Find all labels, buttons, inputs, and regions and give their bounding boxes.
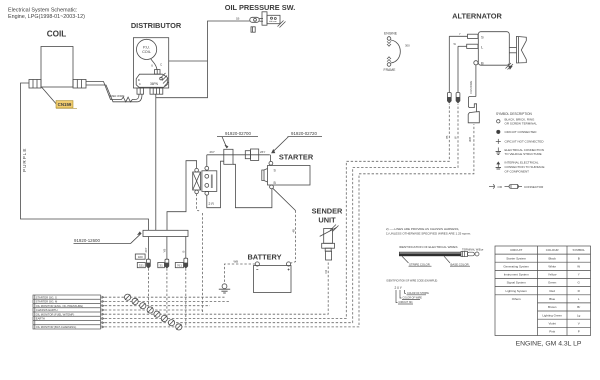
- connector label 91920-02700: [225, 131, 251, 136]
- wire starter B to battery plus: [273, 188, 296, 210]
- module terminal circle: [160, 77, 163, 80]
- svg-text:FUS WIRE: FUS WIRE: [469, 81, 473, 94]
- svg-text:P.U.: P.U.: [143, 45, 150, 49]
- svg-text:31: 31: [159, 264, 163, 268]
- svg-text:BASE COLOR: BASE COLOR: [451, 262, 469, 266]
- module labels: [138, 78, 159, 86]
- table row exit ticks: [102, 296, 105, 328]
- svg-text:B: B: [481, 60, 484, 65]
- svg-text:1B: 1B: [236, 17, 240, 21]
- legend circuit connected symbol: [497, 130, 500, 133]
- svg-text:EARTH: EARTH: [36, 317, 45, 321]
- svg-text:TO VEHICLE STRUCTURE: TO VEHICLE STRUCTURE: [505, 152, 542, 156]
- oil pressure switch body: [262, 12, 280, 25]
- wire harness row5 to sender: [101, 263, 329, 315]
- ground chassis symbol: [219, 284, 230, 293]
- wire main to starter S: [270, 155, 272, 162]
- wire dashed YB to harness row6: [166, 268, 168, 318]
- distributor P.U. coil: [137, 39, 157, 59]
- svg-text:SYMBOL: SYMBOL: [572, 248, 585, 252]
- wire dashed battery minus to ground: [225, 264, 256, 283]
- svg-text:Signal System: Signal System: [507, 281, 527, 285]
- oil switch bracket box: [251, 27, 255, 32]
- wire coil to distributor lower: [86, 85, 142, 102]
- CN159 connector label leader: [42, 87, 57, 104]
- connector circle 7: [168, 320, 174, 326]
- alternator case hatch: [506, 63, 514, 70]
- wire harness row8 to alternator B: [101, 124, 474, 327]
- fusible link: [468, 97, 479, 123]
- wire harness row1: [101, 296, 225, 298]
- svg-text:COIL: COIL: [142, 50, 151, 54]
- svg-text:30B: 30B: [468, 137, 472, 142]
- wire distributor right to oil switch wire: [169, 60, 208, 62]
- svg-text:STRIPE COLOR: STRIPE COLOR: [409, 262, 430, 266]
- svg-text:B: B: [182, 251, 186, 253]
- wire example bar: [399, 252, 461, 256]
- wire relay contact bottom to fuse left: [207, 161, 224, 208]
- alternator B terminal: [474, 61, 478, 65]
- svg-text:Lg: Lg: [577, 313, 581, 317]
- alternator L terminal: [467, 44, 478, 48]
- svg-text:OIL MONITOR (FUEL W/TEMP): OIL MONITOR (FUEL W/TEMP): [36, 312, 75, 316]
- starter motor bump: [262, 169, 268, 183]
- distributor pickup stub connector: [155, 70, 161, 75]
- svg-text:INTERNAL ELECTRICAL: INTERNAL ELECTRICAL: [505, 161, 539, 165]
- wire code example leaders: [396, 290, 398, 303]
- svg-text:CONNECTION TO SURFACE: CONNECTION TO SURFACE: [505, 165, 545, 169]
- svg-text:7B: 7B: [445, 135, 449, 139]
- svg-text:OF COMPONENT: OF COMPONENT: [505, 169, 530, 173]
- svg-text:4B: 4B: [291, 229, 295, 233]
- wire oil pressure switch to distributor junction: [156, 21, 250, 98]
- wire relay coil dashed to ground: [197, 194, 200, 211]
- stripe color leader: [402, 256, 409, 263]
- legend connector symbols: [489, 185, 544, 190]
- svg-text:Br: Br: [577, 305, 580, 309]
- connector circle 4: [147, 307, 153, 313]
- svg-text:STARTER SIG. M: STARTER SIG. M: [36, 300, 58, 304]
- starter B terminal: [270, 185, 274, 189]
- starter terminal letters: [274, 169, 277, 186]
- svg-text:Black: Black: [549, 256, 557, 260]
- fusible link connector pair: [245, 149, 258, 160]
- connector 91920-12600 label: [74, 238, 100, 243]
- svg-text:PURPLE: PURPLE: [22, 148, 27, 172]
- coil left connector: [29, 80, 41, 89]
- battery body: [254, 266, 292, 293]
- connector circle 1: [125, 294, 131, 300]
- resistor wire zigzag: [122, 97, 136, 102]
- svg-text:26Y: 26Y: [210, 150, 215, 154]
- battery polarity marks: [256, 269, 289, 271]
- svg-text:91920-12600: 91920-12600: [74, 238, 100, 243]
- svg-text:CONNECTOR: CONNECTOR: [524, 185, 544, 189]
- svg-text:SENDER: SENDER: [312, 207, 343, 216]
- engine ground terminal: [387, 37, 391, 47]
- wire alternator S: [449, 35, 467, 37]
- starter M1 body: [268, 166, 311, 186]
- sender hatch: [330, 225, 339, 232]
- wire coil to distributor upper: [86, 82, 122, 100]
- connector circle 5: [154, 311, 160, 317]
- svg-text:CIRCUIT CONNECTED: CIRCUIT CONNECTED: [505, 130, 538, 134]
- svg-text:300: 300: [405, 44, 410, 48]
- svg-text:OIL MONITOR (ENG. OIL PRESSURE: OIL MONITOR (ENG. OIL PRESSURE): [36, 304, 83, 308]
- svg-text:YB: YB: [163, 249, 167, 253]
- alternator body: [478, 32, 509, 65]
- sender unit label: [312, 207, 343, 225]
- connector circle 8: [176, 324, 182, 330]
- svg-text:IDENTIFICATION OF WIRE CODE (E: IDENTIFICATION OF WIRE CODE (EXAMPLE): [387, 279, 438, 282]
- svg-text:O2: O2: [324, 269, 328, 273]
- svg-text:OIL MONITOR (BAT-CHARGING): OIL MONITOR (BAT-CHARGING): [36, 325, 77, 329]
- svg-text:26Y: 26Y: [144, 247, 148, 252]
- oil switch female terminal: [250, 17, 263, 22]
- relay contact terminals: [205, 166, 209, 170]
- svg-text:S: S: [481, 34, 484, 39]
- wire harness row3: [101, 305, 211, 307]
- svg-text:DISTRIBUTOR: DISTRIBUTOR: [131, 21, 182, 30]
- terminal bullet YB: [165, 259, 169, 268]
- svg-text:26Y: 26Y: [260, 150, 265, 154]
- terminal bullet 26Y: [147, 259, 151, 268]
- wire harness row2: [101, 300, 231, 302]
- svg-text:ENGINE, GM 4.3L LP: ENGINE, GM 4.3L LP: [516, 341, 582, 348]
- main wire to starter: [207, 154, 270, 156]
- wire zigzag to distributor pin: [135, 94, 139, 99]
- svg-text:P: P: [578, 330, 580, 334]
- wire harness row4: [101, 309, 204, 311]
- wire example terminal: [461, 251, 479, 256]
- svg-text:Blue: Blue: [549, 297, 555, 301]
- svg-text:CIRCUIT NOT CONNECTED: CIRCUIT NOT CONNECTED: [505, 140, 545, 144]
- wire harness row7 to alternator L: [101, 104, 459, 323]
- wire fuse right down to starter B: [233, 164, 272, 207]
- base color leader: [444, 256, 450, 263]
- distributor ignition module U2: [136, 74, 167, 87]
- wire B below connector: [185, 237, 187, 259]
- legend circuit not connected symbol: [496, 139, 501, 144]
- svg-text:ENGINE: ENGINE: [384, 31, 398, 35]
- connector 91920-12600 bar: [143, 230, 188, 236]
- alternator shaft lines: [509, 47, 516, 49]
- svg-text:STARTER: STARTER: [279, 153, 314, 162]
- oil switch hatch: [278, 21, 286, 28]
- svg-text:FRAME: FRAME: [384, 68, 397, 72]
- color code table: [495, 246, 591, 336]
- starter S terminal: [269, 161, 273, 165]
- connector circle 3: [140, 303, 146, 309]
- svg-text:IDENTIFICATION OF ELECTRICAL W: IDENTIFICATION OF ELECTRICAL WIRES: [399, 245, 458, 249]
- module hatch marks: [162, 73, 169, 86]
- wire harness row6 to alternator S: [101, 104, 450, 319]
- alternator pulley belt lines: [517, 36, 527, 63]
- legend vehicle ground symbol: [496, 148, 501, 155]
- svg-text:BATTERY: BATTERY: [247, 252, 281, 261]
- svg-text:Lighting System: Lighting System: [506, 289, 528, 293]
- sender unit body: [324, 229, 333, 244]
- alternator terminal letters: [481, 34, 484, 65]
- svg-text:Others: Others: [512, 297, 522, 301]
- svg-text:Red: Red: [549, 289, 555, 293]
- svg-text:B: B: [578, 256, 580, 260]
- sender slash: [320, 228, 337, 237]
- connector circle 2: [132, 298, 138, 304]
- coil C1 body: [41, 47, 73, 88]
- wire color marks: [454, 33, 462, 46]
- wire 26Y below connector: [147, 237, 149, 260]
- relay contact box: [202, 171, 217, 192]
- svg-text:Y: Y: [578, 273, 580, 277]
- svg-text:Engine, LPG(1998-01~2003-12): Engine, LPG(1998-01~2003-12): [8, 14, 85, 20]
- svg-text:2 0 Y: 2 0 Y: [395, 286, 403, 290]
- legend internal connection symbol: [496, 162, 501, 169]
- note text chassis harness: [386, 227, 471, 236]
- svg-text:BLACK, BRICK, RING: BLACK, BRICK, RING: [505, 117, 536, 121]
- svg-text:Generating System: Generating System: [503, 264, 529, 268]
- svg-text:CN159: CN159: [58, 102, 72, 107]
- svg-text:U: U: [151, 64, 153, 68]
- svg-text:761: 761: [177, 264, 182, 268]
- wire dashed B to harness row8: [185, 268, 187, 327]
- wire YB below connector: [166, 237, 168, 260]
- svg-text:321: 321: [139, 264, 144, 268]
- wire distributor to 12600 connector: [155, 94, 157, 230]
- wire alternator B down: [475, 65, 477, 97]
- connector circle 6: [161, 315, 167, 321]
- coil right connector: [73, 80, 86, 89]
- wire dashed 26Y to harness row4: [147, 268, 149, 310]
- fuse box: [224, 149, 233, 164]
- relay coil terminals: [195, 168, 199, 172]
- svg-text:2 R: 2 R: [209, 202, 215, 206]
- svg-text:Electrical System Schematic:: Electrical System Schematic:: [8, 8, 78, 14]
- terminal bullet S wire: [447, 93, 451, 103]
- connector label 91920-02720: [291, 131, 317, 136]
- svg-text:OR SCREW TERMINAL: OR SCREW TERMINAL: [505, 122, 538, 126]
- signal table bottom left: [33, 295, 101, 329]
- svg-text:STARTER SIG. S: STARTER SIG. S: [36, 295, 57, 299]
- distributor body: [133, 38, 168, 88]
- battery terminals: [255, 262, 259, 266]
- svg-text:91920-02720: 91920-02720: [291, 131, 317, 136]
- svg-text:V: V: [578, 321, 580, 325]
- terminal bullet L wire: [456, 93, 460, 103]
- svg-text:CHASSIS EARTH: CHASSIS EARTH: [36, 308, 58, 312]
- svg-text:Instrument System: Instrument System: [504, 273, 530, 277]
- svg-text:ALTERNATOR: ALTERNATOR: [452, 11, 502, 20]
- distributor pins right: [150, 88, 163, 94]
- terminal label box 321: [137, 263, 145, 268]
- svg-text:Starter System: Starter System: [506, 256, 526, 260]
- wire alternator L: [458, 45, 467, 47]
- svg-text:2) -----LINES ARE PROVIDE AS C: 2) -----LINES ARE PROVIDE AS CHASSIS HAR…: [386, 227, 459, 231]
- svg-text:Yellow: Yellow: [548, 273, 557, 277]
- legend ring terminal symbol: [497, 120, 500, 123]
- wire pickup coil to module: [151, 59, 157, 70]
- wire dashed to battery plus: [291, 211, 296, 264]
- svg-text:320: 320: [138, 255, 143, 259]
- svg-text:UNIT: UNIT: [318, 216, 336, 225]
- alternator S terminal: [468, 34, 479, 38]
- svg-text:Lighting Green: Lighting Green: [542, 313, 562, 317]
- distributor pins left: [137, 88, 144, 94]
- terminal label box 320: [135, 254, 145, 259]
- svg-text:TERMINAL W/Eye: TERMINAL W/Eye: [462, 247, 484, 251]
- wire main wire tap to relay contact: [206, 155, 208, 167]
- svg-text:COIL: COIL: [47, 30, 67, 39]
- svg-text:White: White: [548, 264, 556, 268]
- svg-text:91920-02700: 91920-02700: [225, 131, 251, 136]
- terminal label box 31: [158, 263, 165, 268]
- svg-text:COLOUR: COLOUR: [546, 248, 560, 252]
- title text: [8, 8, 85, 21]
- terminal bullet B: [184, 258, 188, 268]
- frame ground terminal: [387, 57, 391, 67]
- svg-text:Pink: Pink: [549, 330, 555, 334]
- svg-text:Green: Green: [548, 281, 557, 285]
- wire purple: coil to 91920-12600 connector: [21, 83, 149, 230]
- svg-text:CIRCUIT: CIRCUIT: [510, 248, 522, 252]
- wire dashed relay down to harness: [202, 213, 204, 314]
- svg-text:W: W: [577, 264, 580, 268]
- relay 2R coil box: [193, 172, 201, 190]
- svg-text:36PN: 36PN: [150, 82, 159, 86]
- svg-text:1) UNLESS OTHERWISE SPECIFIED: 1) UNLESS OTHERWISE SPECIFIED WIRES ARE …: [386, 232, 471, 236]
- CN159 connector label: [56, 101, 77, 109]
- terminal label box 761: [175, 263, 183, 268]
- ground strap arc 300: [391, 40, 401, 63]
- svg-text:Violet: Violet: [548, 321, 556, 325]
- distributor pin labels U C: [151, 63, 163, 68]
- wire relay coil top loop: [167, 161, 197, 231]
- svg-text:Brown: Brown: [548, 305, 557, 309]
- svg-text:OIL PRESSURE SW.: OIL PRESSURE SW.: [225, 3, 296, 12]
- svg-text:W: W: [454, 136, 458, 139]
- svg-text:ELECTRICAL CONNECTION: ELECTRICAL CONNECTION: [505, 148, 544, 152]
- svg-text:WB: WB: [234, 260, 239, 264]
- svg-text:SYMBOL DESCRIPTION: SYMBOL DESCRIPTION: [496, 112, 533, 116]
